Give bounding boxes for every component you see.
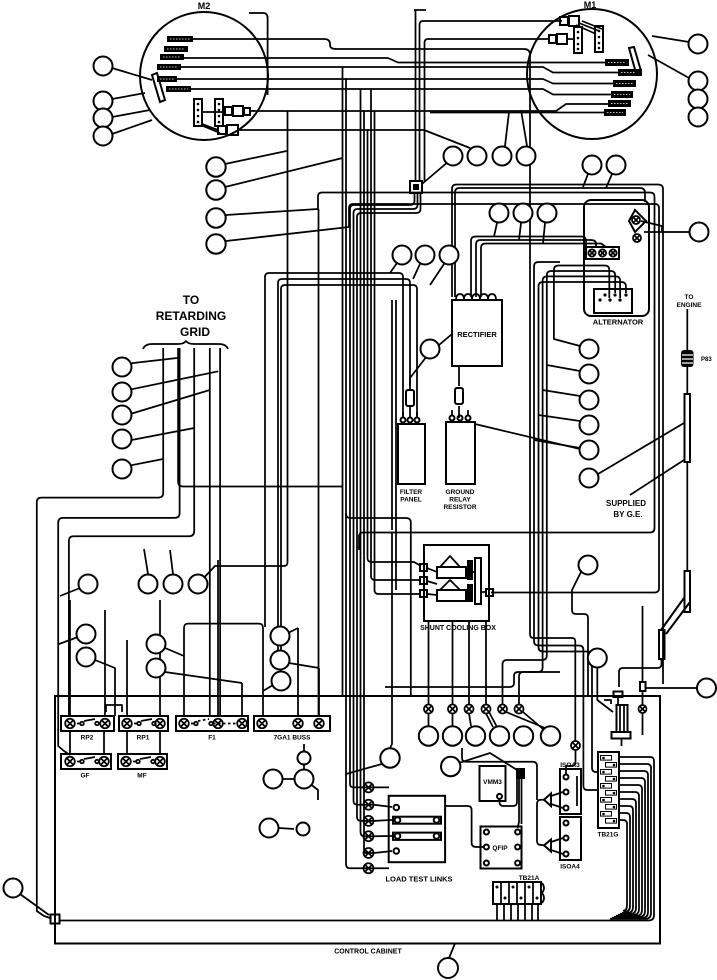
svg-text:FILTER: FILTER [400, 489, 423, 496]
svg-text:P83: P83 [701, 357, 712, 363]
svg-text:RP2: RP2 [81, 735, 94, 742]
svg-text:TO: TO [183, 293, 199, 307]
svg-text:BY G.E.: BY G.E. [613, 510, 642, 519]
svg-text:7GA1 BUSS: 7GA1 BUSS [274, 735, 312, 742]
svg-text:ISOA4: ISOA4 [560, 864, 580, 871]
svg-text:SHUNT COOLING BOX: SHUNT COOLING BOX [420, 625, 496, 632]
svg-text:RETARDING: RETARDING [156, 309, 226, 323]
svg-text:M2: M2 [198, 1, 211, 11]
svg-text:ISOA3: ISOA3 [560, 762, 580, 769]
svg-text:TO: TO [685, 294, 694, 301]
svg-text:RP1: RP1 [137, 735, 150, 742]
svg-text:SUPPLIED: SUPPLIED [606, 499, 646, 508]
svg-text:GRID: GRID [180, 325, 210, 339]
svg-text:M1: M1 [584, 0, 597, 10]
svg-text:TB21G: TB21G [598, 832, 619, 839]
svg-text:TB21A: TB21A [519, 875, 540, 882]
svg-text:PANEL: PANEL [400, 497, 422, 504]
svg-text:GF: GF [80, 773, 89, 780]
svg-text:RESISTOR: RESISTOR [443, 504, 476, 511]
svg-text:CONTROL CABINET: CONTROL CABINET [334, 949, 402, 956]
svg-text:RECTIFIER: RECTIFIER [457, 330, 497, 339]
svg-text:ENGINE: ENGINE [677, 302, 703, 309]
svg-text:ALTERNATOR: ALTERNATOR [593, 318, 644, 327]
svg-text:GROUND: GROUND [446, 489, 475, 496]
svg-text:VMM3: VMM3 [483, 779, 502, 786]
svg-text:LOAD TEST LINKS: LOAD TEST LINKS [385, 875, 452, 884]
svg-text:F1: F1 [208, 735, 216, 742]
svg-text:QFIP: QFIP [492, 845, 508, 852]
svg-text:RELAY: RELAY [449, 497, 471, 504]
svg-text:MF: MF [137, 773, 146, 780]
